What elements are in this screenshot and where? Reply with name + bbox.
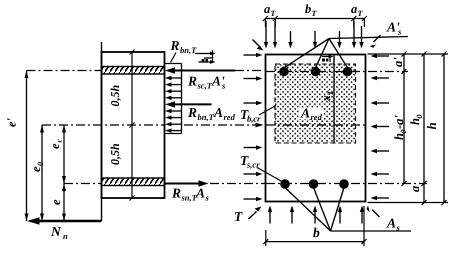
svg-text:a: a [408,186,422,192]
svg-text:h: h [424,122,439,129]
svg-text:b: b [313,225,320,240]
svg-text:s: s [221,81,226,91]
svg-text:bn,T: bn,T [198,112,215,122]
svg-text:R: R [187,105,197,120]
svg-text:e: e [48,143,62,149]
svg-text:T: T [234,209,243,224]
svg-text:A: A [213,105,223,120]
svg-text:0,5h: 0,5h [108,143,122,165]
svg-text:R: R [171,186,181,201]
svg-text:0: 0 [399,130,408,134]
svg-text:0,5h: 0,5h [108,85,122,107]
svg-text:bn,T: bn,T [180,45,197,55]
svg-text:-a': -a' [392,115,406,129]
svg-text:s: s [396,223,401,233]
svg-text:R: R [187,74,197,89]
svg-text:A: A [300,106,310,121]
svg-text:s: s [205,193,210,203]
svg-text:b: b [305,2,311,16]
svg-text:s: s [397,27,402,37]
svg-text:A: A [386,216,396,231]
svg-text:n: n [63,231,68,241]
svg-text:A: A [195,186,205,201]
svg-text:sc,T: sc,T [197,81,213,91]
svg-text:a: a [264,2,270,16]
svg-text:e: e [49,199,63,205]
svg-text:red: red [311,112,323,122]
svg-text:red: red [224,112,236,122]
svg-text:N: N [50,224,62,239]
svg-text:c: c [55,139,64,143]
svg-text:a': a' [391,57,405,67]
svg-text:0: 0 [36,162,45,166]
svg-text:R: R [170,38,180,53]
svg-text:a: a [351,2,357,16]
svg-text:0: 0 [415,115,424,119]
svg-text:e': e' [5,117,19,127]
